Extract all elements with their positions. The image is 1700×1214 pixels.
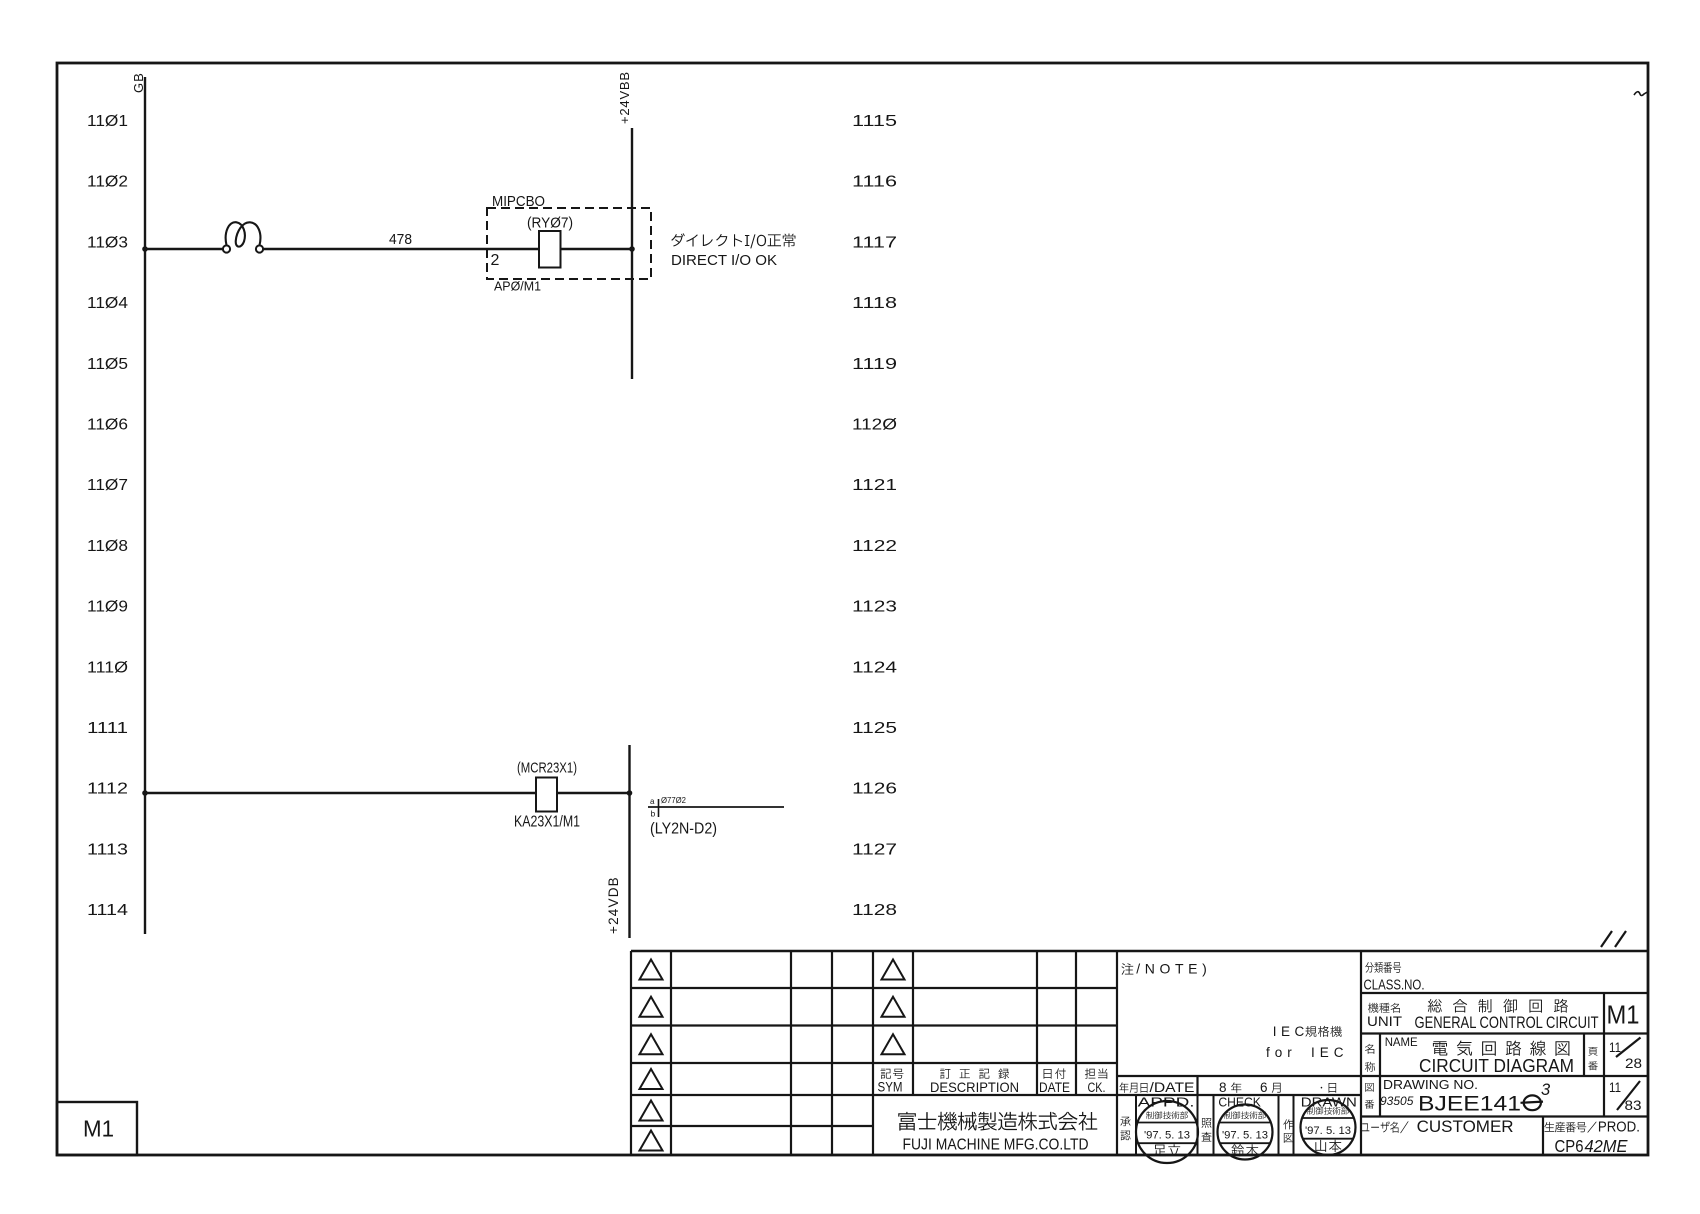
page cell: [1588, 1047, 1597, 1070]
svg-text:1121: 1121: [852, 477, 897, 494]
label DRAWN: [1283, 1095, 1356, 1142]
svg-text:b: b: [651, 809, 656, 819]
svg-text:M1: M1: [83, 1116, 114, 1142]
svg-text:1119: 1119: [852, 356, 897, 373]
svg-text:FUJI MACHINE MFG.CO.LTD: FUJI MACHINE MFG.CO.LTD: [903, 1137, 1089, 1154]
drawing label: [1365, 1083, 1374, 1109]
svg-text:+24VDB: +24VDB: [606, 876, 621, 934]
relay coil RY07: [539, 231, 561, 268]
line number 1116: [852, 174, 897, 191]
svg-text:1112: 1112: [87, 781, 128, 798]
wire rung 1103 right: [561, 248, 633, 250]
svg-text:'97. 5. 13: '97. 5. 13: [1144, 1130, 1190, 1142]
revision table middle: [873, 951, 1117, 1155]
drawing name: [1419, 1041, 1574, 1076]
svg-text:+24VBB: +24VBB: [617, 71, 632, 124]
label direct io: [671, 233, 795, 269]
svg-text:1111: 1111: [87, 720, 128, 737]
svg-text:PROD.: PROD.: [1598, 1119, 1640, 1136]
svg-text:IEC: IEC: [1311, 1045, 1349, 1060]
line number 1112: [87, 781, 128, 798]
header DESCRIPTION: [930, 1069, 1019, 1095]
line number 1110: [87, 659, 128, 676]
svg-text:1116: 1116: [852, 174, 897, 191]
sheet box M1: [57, 1102, 137, 1155]
svg-text:11Ø6: 11Ø6: [87, 417, 128, 434]
svg-text:1118: 1118: [852, 295, 897, 312]
svg-text:KA23X1/M1: KA23X1/M1: [514, 814, 580, 831]
line number 1104: [87, 295, 128, 312]
revision triangle M3: [882, 1034, 905, 1054]
wire rung 1112 left: [145, 792, 536, 794]
svg-text:11Ø5: 11Ø5: [87, 356, 128, 373]
svg-text:1127: 1127: [852, 841, 897, 858]
node on GB rung 1112: [142, 790, 148, 796]
svg-text:for: for: [1266, 1045, 1297, 1060]
line number 1127: [852, 841, 897, 858]
svg-text:DIRECT I/O OK: DIRECT I/O OK: [671, 252, 777, 269]
line number 1119: [852, 356, 897, 373]
revision triangle L5: [640, 1101, 663, 1121]
line number 1107: [87, 477, 128, 494]
line number 1113: [87, 841, 128, 858]
label CHECK: [1201, 1095, 1261, 1141]
dashed box MIPCBO: [487, 208, 651, 279]
prod label: [1544, 1119, 1639, 1136]
revision triangle L3: [640, 1034, 663, 1054]
stamp CHECK: [1218, 1105, 1273, 1160]
line number 1105: [87, 356, 128, 373]
svg-text:/NOTE): /NOTE): [1136, 961, 1211, 977]
sheet 11/28: [1609, 1038, 1642, 1072]
svg-text:Ø77Ø2: Ø77Ø2: [661, 796, 687, 805]
svg-text:11Ø8: 11Ø8: [87, 538, 128, 555]
unit cell border: [1603, 993, 1605, 1034]
svg-text:28: 28: [1625, 1055, 1642, 1071]
wire rung 1112 right: [557, 792, 630, 794]
svg-text:112Ø: 112Ø: [852, 417, 897, 434]
customer label: [1361, 1118, 1513, 1136]
line number 1102: [87, 174, 128, 191]
svg-text:478: 478: [389, 231, 412, 248]
revision triangle L2: [640, 997, 663, 1017]
label (LY2N-D2): [650, 821, 717, 838]
line number 1122: [852, 538, 897, 555]
label APPD: [1120, 1095, 1194, 1140]
svg-text:(RYØ7): (RYØ7): [527, 215, 573, 232]
revision triangle M1: [882, 960, 905, 980]
svg-text:1128: 1128: [852, 902, 897, 919]
wire rung 1103 mid with label 478: [263, 231, 539, 249]
svg-text:MIPCBO: MIPCBO: [492, 194, 545, 210]
header SYM: [878, 1069, 904, 1095]
svg-text:11Ø3: 11Ø3: [87, 234, 128, 251]
svg-text:'97. 5. 13: '97. 5. 13: [1222, 1130, 1268, 1142]
svg-text:1125: 1125: [852, 720, 897, 737]
svg-text:1117: 1117: [852, 234, 897, 251]
line number 1128: [852, 902, 897, 919]
svg-text:a: a: [650, 797, 655, 806]
svg-text:111Ø: 111Ø: [87, 659, 128, 676]
line number 1118: [852, 295, 897, 312]
handwritten check mark: [1634, 91, 1649, 96]
wire rung 1103 left: [145, 248, 224, 250]
company name: [898, 1112, 1097, 1154]
label date: [1120, 1080, 1195, 1095]
name row borders: [1380, 1034, 1604, 1077]
line number 1125: [852, 720, 897, 737]
svg-text:CLASS.NO.: CLASS.NO.: [1364, 978, 1425, 994]
note label: [1122, 961, 1212, 977]
sheet 11/83: [1609, 1079, 1642, 1113]
svg-text:2: 2: [491, 252, 500, 269]
circuit breaker CB rung 1103: [223, 222, 263, 252]
revision triangle L4: [640, 1069, 663, 1089]
svg-text:1122: 1122: [852, 538, 897, 555]
revision triangle L1: [640, 960, 663, 980]
svg-text:8: 8: [1219, 1080, 1227, 1095]
line number 1108: [87, 538, 128, 555]
stamp APPD: [1136, 1101, 1198, 1163]
svg-text:11Ø2: 11Ø2: [87, 174, 128, 191]
svg-text:42ME: 42ME: [1585, 1136, 1628, 1156]
revision triangle M2: [882, 997, 905, 1017]
unit name: [1415, 999, 1599, 1032]
svg-text:/DATE: /DATE: [1150, 1080, 1195, 1095]
date row: [1117, 1076, 1361, 1095]
line number 1124: [852, 659, 897, 676]
node rung 1112 at +24VDB: [627, 790, 633, 796]
label MIPCBO: [492, 194, 545, 210]
line number 1106: [87, 417, 128, 434]
bus +24VBB: [617, 71, 632, 379]
node rung 1103 at +24VBB: [629, 246, 635, 252]
line number 1121: [852, 477, 897, 494]
terminal wire a1/b1: [648, 796, 784, 819]
svg-text:11: 11: [1609, 1039, 1621, 1055]
unit label: [1367, 1003, 1402, 1029]
drawing no: [1380, 1078, 1551, 1116]
handwritten 11: [1601, 931, 1626, 947]
label AP0/M1: [494, 279, 541, 294]
stamp row dividers: [1136, 1095, 1294, 1155]
svg-text:M1: M1: [1607, 1000, 1640, 1030]
svg-text:1124: 1124: [852, 659, 897, 676]
line number 1103: [87, 234, 128, 251]
line number 1117: [852, 234, 897, 251]
svg-text:6: 6: [1260, 1080, 1268, 1095]
class no: [1364, 962, 1425, 994]
sheet M1: [1607, 1000, 1640, 1030]
label (MCR23X1): [517, 760, 577, 777]
drawing row borders: [1380, 1076, 1604, 1117]
revision triangle L6: [640, 1131, 663, 1151]
line number 1123: [852, 599, 897, 616]
svg-text:NAME: NAME: [1385, 1037, 1418, 1049]
svg-text:1123: 1123: [852, 599, 897, 616]
svg-text:11Ø4: 11Ø4: [87, 295, 128, 312]
svg-text:(LY2N-D2): (LY2N-D2): [650, 821, 717, 838]
vertical divider notes: [1360, 951, 1362, 1155]
line number 1101: [87, 113, 128, 130]
customer row border: [1542, 1117, 1544, 1156]
svg-text:11Ø9: 11Ø9: [87, 599, 128, 616]
revision table left: [631, 951, 1648, 1155]
name label: [1365, 1037, 1418, 1072]
line number 1115: [852, 113, 897, 130]
label (RY07): [527, 215, 573, 232]
svg-text:(MCR23X1): (MCR23X1): [517, 760, 577, 777]
svg-text:11Ø7: 11Ø7: [87, 477, 128, 494]
svg-text:11: 11: [1609, 1079, 1621, 1095]
header CK: [1085, 1068, 1107, 1095]
svg-text:BJEE141: BJEE141: [1418, 1093, 1521, 1116]
svg-text:CK.: CK.: [1088, 1080, 1106, 1095]
pin 2: [491, 252, 500, 269]
svg-text:3: 3: [1541, 1081, 1551, 1099]
bus +24VDB: [606, 745, 630, 938]
node on GB rung 1103: [142, 246, 148, 252]
bus GB: [131, 72, 146, 934]
header DATE: [1039, 1068, 1070, 1095]
label KA23X1/M1: [514, 814, 580, 831]
svg-text:IEC: IEC: [1273, 1024, 1309, 1039]
line number 1109: [87, 599, 128, 616]
svg-text:11Ø1: 11Ø1: [87, 113, 128, 130]
svg-text:DESCRIPTION: DESCRIPTION: [930, 1079, 1019, 1095]
relay coil MCR23X1: [536, 778, 557, 812]
svg-text:1114: 1114: [87, 902, 128, 919]
prod no: [1555, 1136, 1628, 1156]
date value: [1219, 1080, 1336, 1095]
svg-text:UNIT: UNIT: [1367, 1013, 1402, 1029]
svg-text:CP6: CP6: [1555, 1136, 1584, 1156]
svg-text:CIRCUIT DIAGRAM: CIRCUIT DIAGRAM: [1419, 1056, 1574, 1076]
svg-text:CUSTOMER: CUSTOMER: [1417, 1118, 1514, 1136]
line number 1111: [87, 720, 128, 737]
svg-text:APØ/M1: APØ/M1: [494, 279, 541, 294]
line number 1114: [87, 902, 128, 919]
svg-text:1126: 1126: [852, 781, 897, 798]
svg-text:DRAWING NO.: DRAWING NO.: [1383, 1078, 1478, 1092]
svg-text:83: 83: [1625, 1097, 1642, 1113]
svg-text:93505: 93505: [1380, 1094, 1414, 1108]
svg-text:GB: GB: [131, 72, 146, 93]
svg-text:DATE: DATE: [1039, 1080, 1070, 1095]
svg-text:1115: 1115: [852, 113, 897, 130]
line number 1126: [852, 781, 897, 798]
svg-text:'97. 5. 13: '97. 5. 13: [1305, 1125, 1351, 1137]
stamp DRAWN: [1301, 1100, 1356, 1155]
svg-text:GENERAL CONTROL CIRCUIT: GENERAL CONTROL CIRCUIT: [1415, 1014, 1599, 1032]
label IEC: [1266, 1024, 1349, 1060]
svg-text:SYM: SYM: [878, 1080, 903, 1095]
line number 1120: [852, 417, 897, 434]
svg-text:1113: 1113: [87, 841, 128, 858]
info rows: [1361, 993, 1648, 1117]
